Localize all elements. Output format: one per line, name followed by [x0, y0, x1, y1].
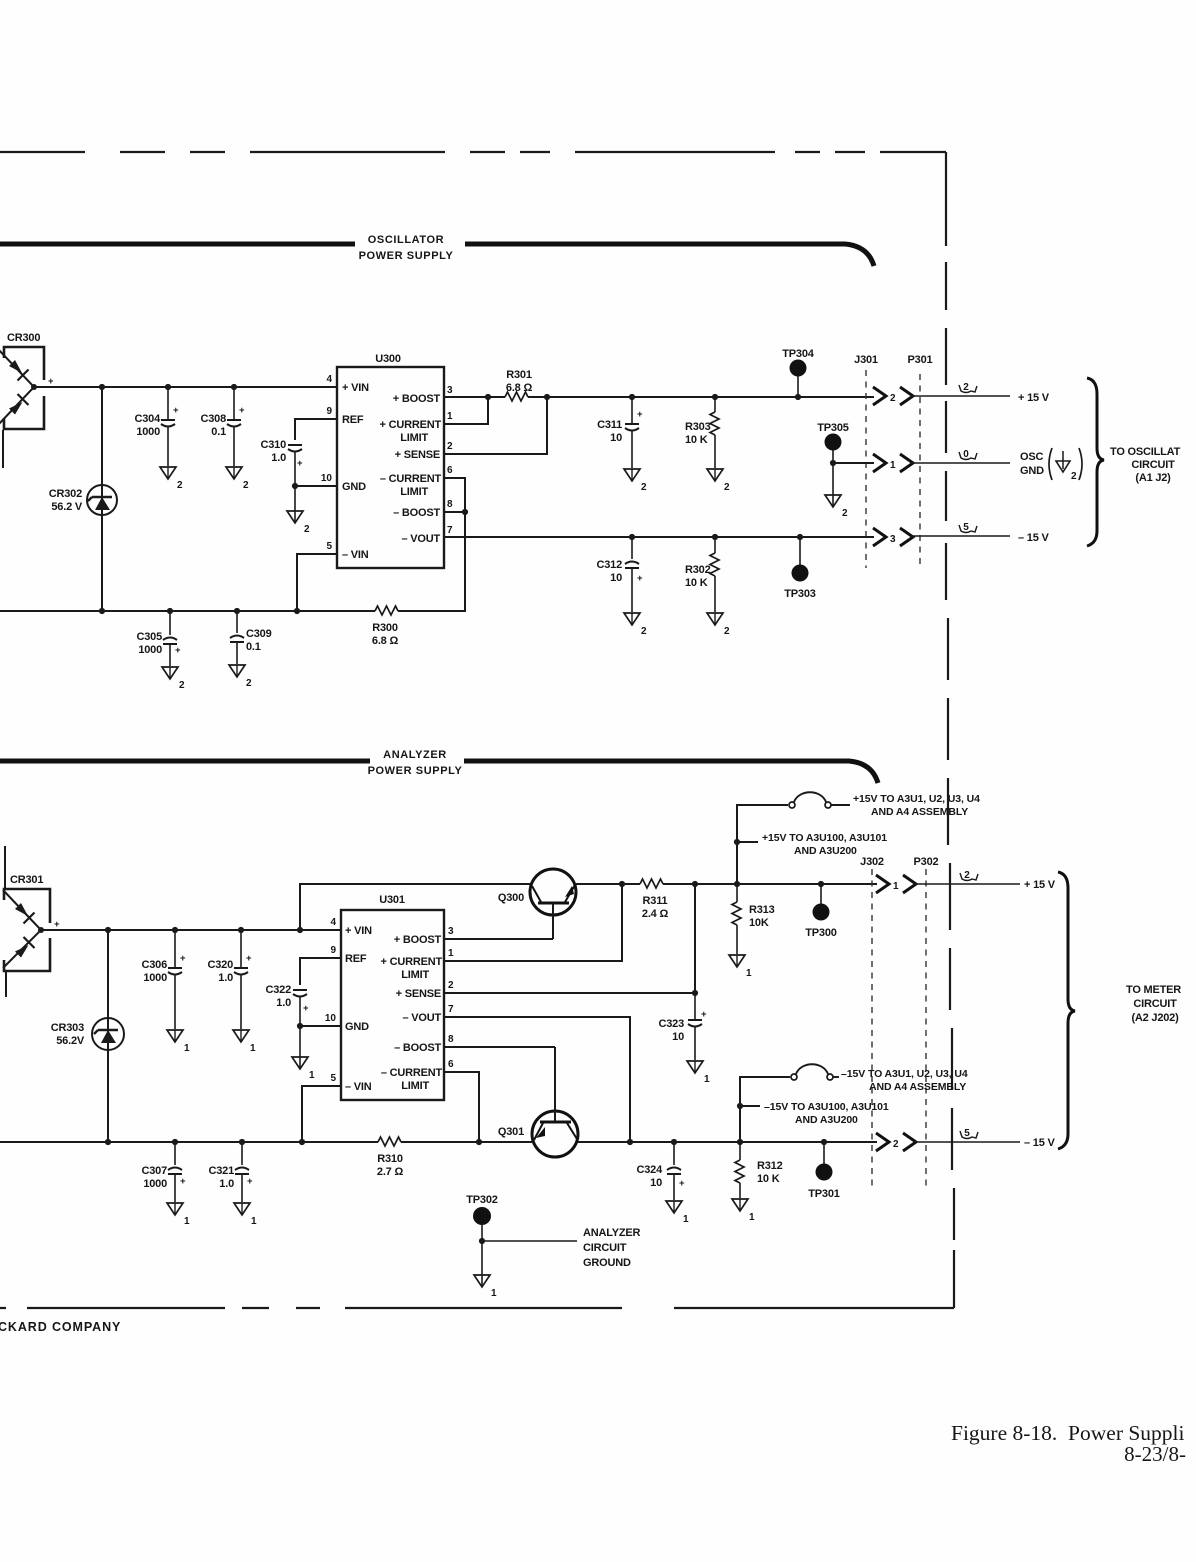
- capacitor C305: [137, 608, 182, 666]
- svg-text:3: 3: [447, 385, 453, 396]
- wire Q300 base to pin 3: [444, 938, 553, 940]
- resistor R313: [732, 884, 775, 954]
- svg-text:2: 2: [304, 524, 310, 535]
- svg-text:1: 1: [447, 411, 453, 422]
- wire pin 2 (+SENSE) to node after R301: [444, 394, 550, 454]
- svg-text:2: 2: [724, 626, 730, 637]
- ground below C322: [292, 1026, 315, 1081]
- svg-text:1000: 1000: [143, 1178, 167, 1190]
- capacitor C323: [659, 993, 708, 1060]
- capacitor C304: [135, 384, 180, 466]
- svg-text:8: 8: [447, 499, 453, 510]
- svg-text:(A1 J2): (A1 J2): [1135, 472, 1171, 484]
- svg-text:R312: R312: [757, 1160, 783, 1172]
- wire -VIN pin 5 to -V rail: [297, 554, 337, 611]
- svg-text:6: 6: [448, 1059, 454, 1070]
- svg-text:TP303: TP303: [784, 588, 815, 600]
- capacitor C309: [230, 608, 272, 664]
- op-amp regulator U300: [337, 353, 444, 568]
- ground at C307: [167, 1203, 190, 1227]
- svg-text:1: 1: [184, 1043, 190, 1054]
- U301 pin 10 (GND): [325, 1013, 369, 1033]
- svg-text:5: 5: [964, 1128, 970, 1139]
- label -15V to A3U100: [764, 1101, 889, 1126]
- ground at C324: [666, 1201, 689, 1225]
- svg-text:R300: R300: [372, 622, 398, 634]
- svg-text:+ SENSE: + SENSE: [395, 449, 440, 461]
- svg-text:TO OSCILLAT: TO OSCILLAT: [1110, 446, 1181, 458]
- wire TP302 to analyzer ground label: [482, 1240, 577, 1242]
- transistor Q300: [498, 869, 576, 939]
- wire pin 7 riser: [444, 1017, 633, 1145]
- svg-text:1: 1: [309, 1070, 315, 1081]
- svg-text:CR302: CR302: [49, 488, 82, 500]
- ground at C323: [687, 1061, 710, 1085]
- capacitor C321: [209, 1139, 254, 1202]
- svg-text:1: 1: [683, 1214, 689, 1225]
- wire OSC GND row: [833, 449, 1010, 472]
- resistor R311: [640, 879, 668, 920]
- svg-text:1000: 1000: [136, 426, 160, 438]
- label +15V to A3U100: [762, 832, 887, 857]
- svg-text:CR301: CR301: [10, 874, 43, 886]
- svg-text:CR300: CR300: [7, 332, 40, 344]
- svg-text:AND A4 ASSEMBLY: AND A4 ASSEMBLY: [871, 806, 968, 818]
- svg-text:1.0: 1.0: [276, 997, 291, 1009]
- ground at C305: [162, 667, 185, 691]
- svg-text:+: +: [180, 953, 186, 964]
- connector P302: [914, 856, 939, 1190]
- J301-P301 pins row -15V: [873, 528, 913, 546]
- U301 pin 2 (+SENSE): [396, 980, 454, 1000]
- svg-text:R313: R313: [749, 904, 775, 916]
- svg-text:+15V TO A3U1, U2, U3, U4: +15V TO A3U1, U2, U3, U4: [853, 793, 980, 805]
- svg-text:TO METER: TO METER: [1126, 984, 1181, 996]
- test point TP301: [808, 1139, 839, 1200]
- wire R300 to pins 8 and 6: [398, 478, 468, 611]
- svg-text:1.0: 1.0: [219, 1178, 234, 1190]
- svg-text:Q300: Q300: [498, 892, 524, 904]
- U300 pin 3 (+BOOST): [393, 385, 453, 405]
- zener diode CR303: [51, 927, 124, 1145]
- svg-text:56.2 V: 56.2 V: [51, 501, 82, 513]
- svg-text:+: +: [701, 1009, 707, 1020]
- svg-text:– VIN: – VIN: [342, 549, 369, 561]
- capacitor C308: [201, 384, 246, 466]
- svg-text:0.1: 0.1: [246, 641, 261, 653]
- svg-text:+ 15 V: + 15 V: [1024, 879, 1056, 891]
- svg-text:0.1: 0.1: [211, 426, 226, 438]
- ground at C311: [624, 469, 647, 493]
- svg-text:C320: C320: [208, 959, 234, 971]
- ground at R302: [707, 613, 730, 637]
- svg-text:4: 4: [326, 374, 332, 385]
- wire REF pin 9 to C322: [300, 958, 341, 985]
- U301 pin 8 (-BOOST): [394, 1034, 454, 1054]
- wire pin 1 to emitter node: [444, 881, 625, 961]
- resistor R312: [735, 1142, 783, 1198]
- svg-text:2: 2: [448, 980, 454, 991]
- svg-text:P302: P302: [914, 856, 939, 868]
- brace to meter circuit: [1058, 872, 1075, 1149]
- ground at R303: [707, 469, 730, 493]
- svg-text:REF: REF: [342, 414, 364, 426]
- wire +V rail to U300 pin 4: [34, 386, 337, 388]
- label TO OSCILLATOR CIRCUIT: [1110, 446, 1181, 484]
- svg-text:10: 10: [672, 1031, 684, 1043]
- svg-text:ANALYZER: ANALYZER: [383, 749, 447, 761]
- svg-text:10: 10: [650, 1177, 662, 1189]
- capacitor C307: [142, 1139, 187, 1202]
- analyzer power supply header: [0, 749, 878, 783]
- -V rail analyzer left: [0, 1139, 378, 1145]
- bridge rectifier CR300: [0, 332, 54, 468]
- svg-text:1: 1: [749, 1212, 755, 1223]
- svg-text:2: 2: [447, 441, 453, 452]
- svg-text:LIMIT: LIMIT: [400, 486, 428, 498]
- svg-text:TP302: TP302: [466, 1194, 497, 1206]
- wire riser to +15V fuse: [734, 805, 788, 887]
- svg-text:10: 10: [325, 1013, 337, 1024]
- svg-text:U300: U300: [375, 353, 401, 365]
- brace to oscillator circuit: [1087, 378, 1104, 546]
- J302-P302 pins row -15V: [876, 1133, 916, 1151]
- resistor R310: [377, 1137, 404, 1178]
- svg-text:2: 2: [641, 482, 647, 493]
- test point TP303: [784, 534, 815, 600]
- transistor Q301: [498, 1047, 578, 1157]
- ground below C310: [287, 486, 310, 535]
- -V bottom rail oscillator: [0, 608, 375, 614]
- svg-text:– BOOST: – BOOST: [394, 1042, 441, 1054]
- svg-text:+: +: [173, 405, 179, 416]
- svg-text:C304: C304: [135, 413, 162, 425]
- capacitor C306: [142, 927, 187, 1029]
- svg-text:8-23/8-: 8-23/8-: [1124, 1442, 1186, 1466]
- wire Q301 to J302 (-15V): [578, 1141, 877, 1143]
- resistor R301: [505, 369, 532, 401]
- svg-text:+: +: [679, 1178, 685, 1189]
- wire +15V line to J301: [528, 396, 874, 398]
- svg-text:1: 1: [746, 968, 752, 979]
- U300 pin 10 (GND): [321, 473, 366, 493]
- U301 pin 1 (+CURRENT LIMIT): [381, 948, 454, 981]
- svg-text:+: +: [175, 645, 181, 656]
- svg-text:+ CURRENT: + CURRENT: [381, 956, 443, 968]
- U300 pin 4 (+VIN): [326, 374, 369, 394]
- svg-text:2.7 Ω: 2.7 Ω: [377, 1166, 404, 1178]
- svg-text:5: 5: [963, 522, 969, 533]
- svg-text:R311: R311: [643, 895, 668, 907]
- svg-text:P301: P301: [908, 354, 933, 366]
- svg-text:TP300: TP300: [805, 927, 836, 939]
- svg-text:– 15 V: – 15 V: [1018, 532, 1049, 544]
- svg-text:POWER SUPPLY: POWER SUPPLY: [359, 250, 454, 262]
- ground at C304: [160, 467, 183, 491]
- wire pin 6 riser: [444, 1072, 479, 1142]
- svg-text:U301: U301: [379, 894, 405, 906]
- svg-text:CR303: CR303: [51, 1022, 84, 1034]
- wire +BOOST pin 3 to R301: [444, 396, 505, 398]
- svg-text:C308: C308: [201, 413, 227, 425]
- svg-text:C305: C305: [137, 631, 163, 643]
- connector P301: [908, 354, 933, 568]
- wire P302 to +15V label: [914, 870, 1056, 891]
- wire -VOUT pin 7 to J301 (-15V line): [444, 536, 874, 538]
- wire Q300 emitter to R311: [576, 883, 640, 885]
- svg-text:+ BOOST: + BOOST: [393, 393, 441, 405]
- svg-text:C312: C312: [597, 559, 623, 571]
- svg-text:1000: 1000: [138, 644, 162, 656]
- op-amp regulator U301: [341, 894, 444, 1100]
- wire C310 to GND pin 10: [292, 483, 337, 489]
- label TO METER CIRCUIT: [1126, 984, 1181, 1024]
- ground at C309: [229, 665, 252, 689]
- capacitor C310: [261, 439, 304, 486]
- wire R311 to J302 (+15V): [663, 883, 877, 885]
- wire C322 to GND pin 10: [297, 1023, 341, 1029]
- svg-text:6.8 Ω: 6.8 Ω: [372, 635, 399, 647]
- U300 pin 1 (+CURRENT LIMIT): [380, 411, 453, 444]
- svg-text:+ VIN: + VIN: [342, 382, 369, 394]
- svg-text:J301: J301: [854, 354, 878, 366]
- U301 pin 5 (-VIN): [330, 1073, 371, 1093]
- svg-text:+15V TO A3U100, A3U101: +15V TO A3U100, A3U101: [762, 832, 887, 844]
- svg-text:2: 2: [890, 393, 896, 404]
- connector J302: [860, 856, 884, 1190]
- svg-text:AND A3U200: AND A3U200: [794, 845, 857, 857]
- svg-text:Q301: Q301: [498, 1126, 524, 1138]
- svg-text:R303: R303: [685, 421, 711, 433]
- svg-text:+: +: [239, 405, 245, 416]
- capacitor C320: [208, 927, 253, 1029]
- svg-text:10K: 10K: [749, 917, 769, 929]
- svg-text:CIRCUIT: CIRCUIT: [1131, 459, 1175, 471]
- svg-text:2: 2: [964, 870, 970, 881]
- svg-text:6: 6: [447, 465, 453, 476]
- svg-text:4: 4: [330, 917, 336, 928]
- svg-text:1.0: 1.0: [218, 972, 233, 984]
- svg-text:2: 2: [179, 680, 185, 691]
- ground at C306: [167, 1030, 190, 1054]
- svg-text:7: 7: [447, 525, 453, 536]
- svg-text:C310: C310: [261, 439, 287, 451]
- wire pin 8 to Q301 base: [444, 1046, 555, 1048]
- svg-text:+: +: [637, 573, 643, 584]
- wire branch -15V to A3U100: [737, 1103, 760, 1109]
- svg-text:1: 1: [491, 1288, 497, 1299]
- wire rail riser to Q300 collector: [297, 884, 531, 933]
- test point TP304: [782, 348, 814, 400]
- wire pin 5 riser: [302, 1086, 341, 1142]
- svg-text:1: 1: [704, 1074, 710, 1085]
- svg-text:3: 3: [890, 534, 896, 545]
- svg-text:10 K: 10 K: [757, 1173, 780, 1185]
- zener diode CR302: [49, 384, 117, 614]
- U300 pin 5 (-VIN): [326, 541, 368, 561]
- svg-text:AND A4 ASSEMBLY: AND A4 ASSEMBLY: [869, 1081, 966, 1093]
- svg-text:2: 2: [246, 678, 252, 689]
- U300 pin 8 (-BOOST): [393, 499, 453, 519]
- svg-text:+: +: [54, 919, 60, 930]
- svg-text:R302: R302: [685, 564, 711, 576]
- U301 pin 9 (REF): [330, 945, 366, 965]
- svg-text:OSCILLATOR: OSCILLATOR: [368, 234, 444, 246]
- svg-text:CIRCUIT: CIRCUIT: [1133, 998, 1177, 1010]
- svg-text:TP305: TP305: [817, 422, 848, 434]
- svg-text:7: 7: [448, 1004, 454, 1015]
- svg-text:OSC: OSC: [1020, 451, 1043, 463]
- svg-text:2: 2: [243, 480, 249, 491]
- svg-text:1.0: 1.0: [271, 452, 286, 464]
- svg-text:1000: 1000: [143, 972, 167, 984]
- svg-text:TP304: TP304: [782, 348, 814, 360]
- svg-text:(A2 J202): (A2 J202): [1131, 1012, 1179, 1024]
- svg-text:J302: J302: [860, 856, 884, 868]
- label analyzer circuit ground: [583, 1227, 641, 1269]
- svg-text:+ CURRENT: + CURRENT: [380, 419, 442, 431]
- U301 pin 6 (-CURRENT LIMIT): [381, 1059, 454, 1092]
- svg-text:5: 5: [326, 541, 332, 552]
- svg-text:– VIN: – VIN: [345, 1081, 372, 1093]
- U300 pin 2 (+SENSE): [395, 441, 453, 461]
- svg-text:– BOOST: – BOOST: [393, 507, 440, 519]
- svg-text:POWER SUPPLY: POWER SUPPLY: [368, 765, 463, 777]
- svg-text:2: 2: [963, 382, 969, 393]
- svg-text:9: 9: [326, 406, 332, 417]
- svg-text:AND A3U200: AND A3U200: [795, 1114, 858, 1126]
- svg-text:2: 2: [641, 626, 647, 637]
- svg-text:– VOUT: – VOUT: [401, 533, 440, 545]
- svg-text:REF: REF: [345, 953, 367, 965]
- svg-text:2: 2: [1071, 471, 1077, 482]
- svg-text:GROUND: GROUND: [583, 1257, 631, 1269]
- U300 pin 9 (REF): [326, 406, 363, 426]
- svg-text:2: 2: [893, 1139, 899, 1150]
- capacitor C311: [597, 394, 643, 468]
- svg-text:2.4 Ω: 2.4 Ω: [642, 908, 669, 920]
- test point TP300: [805, 881, 836, 939]
- svg-text:10: 10: [610, 572, 622, 584]
- ground at C320: [233, 1030, 256, 1054]
- svg-text:+: +: [297, 458, 303, 469]
- svg-text:– CURRENT: – CURRENT: [380, 473, 442, 485]
- svg-text:C322: C322: [266, 984, 292, 996]
- svg-text:C309: C309: [246, 628, 272, 640]
- svg-text:+: +: [246, 953, 252, 964]
- U300 pin 6 (-CURRENT LIMIT): [380, 465, 453, 498]
- svg-text:ANALYZER: ANALYZER: [583, 1227, 641, 1239]
- label +15V to A3U1: [853, 793, 980, 818]
- capacitor C322: [266, 984, 310, 1026]
- wire riser to -15V fuse: [737, 1077, 790, 1145]
- resistor R300: [372, 606, 399, 647]
- svg-text:9: 9: [330, 945, 336, 956]
- oscillator power supply header: [0, 234, 874, 266]
- svg-text:+ 15 V: + 15 V: [1018, 392, 1050, 404]
- svg-text:0: 0: [963, 449, 969, 460]
- svg-text:10: 10: [321, 473, 333, 484]
- svg-text:LIMIT: LIMIT: [401, 1080, 429, 1092]
- svg-text:GND: GND: [342, 481, 366, 493]
- svg-text:+: +: [180, 1176, 186, 1187]
- fuse -15V: [791, 1064, 839, 1080]
- ground at C321: [234, 1203, 257, 1227]
- svg-text:–15V TO A3U100, A3U101: –15V TO A3U100, A3U101: [764, 1101, 889, 1113]
- svg-text:LIMIT: LIMIT: [400, 432, 428, 444]
- svg-text:C307: C307: [142, 1165, 168, 1177]
- ground below TP302: [474, 1241, 497, 1299]
- figure caption: [951, 1421, 1186, 1466]
- wire R310 to Q301: [401, 1139, 532, 1145]
- ground at R313: [729, 955, 752, 979]
- svg-text:– CURRENT: – CURRENT: [381, 1067, 443, 1079]
- wire P302 to -15V label: [914, 1128, 1055, 1149]
- svg-text:R310: R310: [377, 1153, 403, 1165]
- svg-text:1: 1: [893, 881, 899, 892]
- svg-text:6.8 Ω: 6.8 Ω: [506, 382, 533, 394]
- ground at TP305: [825, 463, 848, 519]
- svg-text:1: 1: [250, 1043, 256, 1054]
- wire P301 to +15V label: [911, 382, 1050, 404]
- svg-text:1: 1: [184, 1216, 190, 1227]
- ground at C312: [624, 613, 647, 637]
- wire REF pin 9 to C310: [295, 419, 337, 440]
- label -15V to A3U1: [841, 1068, 968, 1093]
- svg-text:CIRCUIT: CIRCUIT: [583, 1242, 627, 1254]
- svg-text:C311: C311: [597, 419, 622, 431]
- svg-text:R301: R301: [506, 369, 532, 381]
- wire +V rail to U301 pin 4: [41, 929, 341, 931]
- U301 pin 3 (+BOOST): [394, 926, 454, 946]
- svg-text:2: 2: [724, 482, 730, 493]
- U300 pin 7 (-VOUT): [401, 525, 453, 545]
- capacitor C324: [637, 1139, 686, 1200]
- ground at C308: [226, 467, 249, 491]
- svg-text:+: +: [303, 1003, 309, 1014]
- svg-text:+: +: [247, 1176, 253, 1187]
- svg-text:– VOUT: – VOUT: [402, 1012, 441, 1024]
- svg-text:8: 8: [448, 1034, 454, 1045]
- connector J301: [854, 354, 878, 568]
- fuse +15V: [789, 792, 850, 808]
- J301-P301 pins row +15V: [873, 387, 913, 405]
- wire pin 1 to +BOOST node: [444, 394, 491, 424]
- svg-text:1: 1: [251, 1216, 257, 1227]
- svg-text:+: +: [637, 409, 643, 420]
- svg-text:GND: GND: [1020, 465, 1044, 477]
- U301 pin 4 (+VIN): [330, 917, 372, 937]
- svg-text:56.2V: 56.2V: [56, 1035, 85, 1047]
- ground at R312: [732, 1199, 755, 1223]
- wire P301 to -15V label: [911, 522, 1049, 544]
- svg-text:–15V TO A3U1, U2, U3, U4: –15V TO A3U1, U2, U3, U4: [841, 1068, 968, 1080]
- svg-text:C324: C324: [637, 1164, 664, 1176]
- svg-text:10: 10: [610, 432, 622, 444]
- svg-text:TP301: TP301: [808, 1188, 839, 1200]
- svg-text:2: 2: [177, 480, 183, 491]
- svg-text:LIMIT: LIMIT: [401, 969, 429, 981]
- svg-text:GND: GND: [345, 1021, 369, 1033]
- svg-text:+: +: [48, 376, 54, 387]
- J302-P302 pins row +15V: [876, 875, 916, 893]
- svg-text:+ VIN: + VIN: [345, 925, 372, 937]
- svg-text:+ BOOST: + BOOST: [394, 934, 442, 946]
- svg-text:1: 1: [448, 948, 454, 959]
- svg-text:1: 1: [890, 460, 896, 471]
- resistor R302: [685, 534, 719, 612]
- svg-text:– 15 V: – 15 V: [1024, 1137, 1055, 1149]
